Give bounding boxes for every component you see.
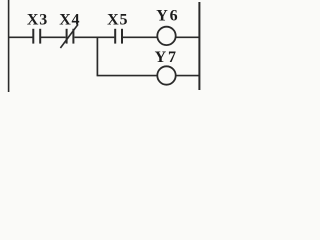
svg-text:Y7: Y7 — [155, 49, 178, 66]
svg-text:Y6: Y6 — [156, 8, 179, 25]
svg-text:X5: X5 — [107, 11, 128, 28]
svg-text:X3: X3 — [27, 11, 48, 28]
svg-text:X4: X4 — [59, 12, 80, 29]
